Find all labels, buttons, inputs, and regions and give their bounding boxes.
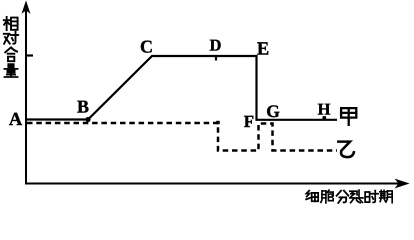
svg-text:E: E	[257, 40, 269, 60]
node B junction dot	[85, 117, 90, 122]
y-axis arrowhead	[23, 2, 30, 13]
svg-text:C: C	[140, 37, 153, 57]
x-axis	[25, 183, 400, 185]
svg-text:F: F	[244, 112, 254, 131]
dot below H	[323, 116, 327, 119]
label 乙	[338, 142, 353, 158]
svg-text:D: D	[210, 36, 222, 55]
y-axis tick	[26, 54, 33, 56]
curve 乙 (dashed line)	[27, 123, 337, 151]
y-axis	[25, 10, 27, 184]
label 甲	[341, 108, 356, 125]
svg-text:H: H	[318, 100, 331, 119]
x-axis arrowhead	[396, 180, 408, 188]
y-axis label 相对含量	[4, 17, 18, 77]
svg-text:A: A	[9, 110, 23, 130]
curve 甲 (solid line A-B-C-E-F-H)	[26, 56, 337, 120]
svg-text:B: B	[77, 97, 89, 117]
svg-text:G: G	[266, 101, 280, 121]
tick below D	[215, 56, 217, 61]
x-axis label 细胞分裂时期	[306, 190, 392, 203]
junction dot on dashed line	[216, 121, 220, 124]
